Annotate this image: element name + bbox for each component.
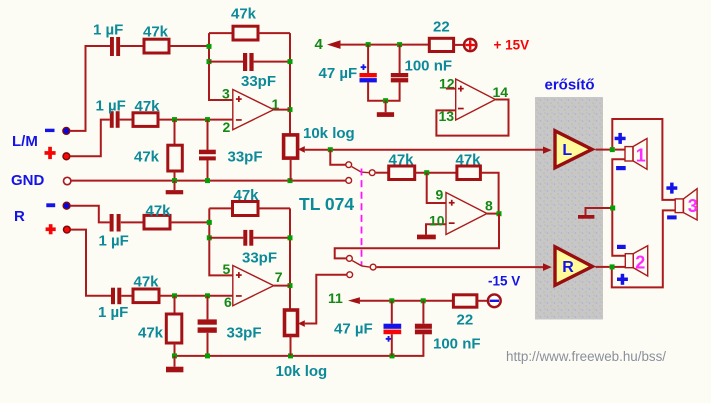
wire pin12 stub (446, 88, 456, 90)
svg-text:14: 14 (493, 84, 509, 100)
wire R fb resistor row left (209, 207, 232, 209)
svg-text:10k log: 10k log (276, 363, 328, 380)
resistor 47k (L shunt vertical) (168, 145, 183, 171)
wire amplifier L output (596, 149, 611, 151)
svg-text:33pF: 33pF (241, 73, 276, 90)
GND terminal (63, 177, 70, 184)
svg-text:1 µF: 1 µF (93, 22, 123, 39)
switch SW1a lever (352, 167, 369, 173)
wire L minus to top row (70, 46, 110, 131)
wire feedback to output vertical (480, 173, 498, 214)
wire 47k shunt bottom lead (174, 171, 176, 181)
arrow to pin 11 (348, 297, 360, 304)
node junction rail 100nF bottom (421, 298, 426, 303)
resistor 22 (-15V) (453, 295, 477, 307)
label -15 V (488, 274, 520, 289)
svg-text:47k: 47k (389, 152, 415, 169)
potentiometer R wiper arrow (298, 320, 305, 327)
label 33pF (242, 250, 277, 267)
speaker 3 plus mark (666, 183, 677, 194)
label 47k (456, 152, 482, 169)
label 100 nF (405, 58, 453, 75)
svg-text:22: 22 (433, 19, 450, 36)
wire resistor to -15V source (477, 300, 488, 302)
pin label 12 (439, 76, 455, 92)
wire 100nF bottom top lead (422, 301, 424, 324)
op-amp U1b minus mark (236, 295, 242, 297)
amplifier block gray box (535, 97, 603, 320)
wire resistor to node (169, 45, 209, 47)
R minus terminal (63, 202, 70, 209)
svg-text:10: 10 (429, 213, 445, 229)
wire loop R output to speaker 3 minus (612, 210, 675, 287)
capacitor 100nF (top) (391, 73, 408, 82)
label 47uF (334, 320, 373, 337)
svg-text:10k log: 10k log (303, 125, 355, 142)
label 1uF (99, 232, 129, 249)
pin label 7 (275, 269, 283, 285)
wire pot L bottom to GND row (290, 158, 292, 181)
label 1uF (98, 304, 128, 321)
svg-text:22: 22 (457, 312, 474, 329)
wire 47uF bottom lead (368, 82, 386, 100)
label 47k (389, 152, 415, 169)
node junction bottom row 33pF (205, 353, 210, 358)
svg-text:8: 8 (485, 198, 493, 214)
svg-text:L/M: L/M (12, 133, 38, 150)
svg-text:47k: 47k (134, 274, 160, 291)
wire +15V rail (339, 44, 429, 46)
wire op-amp U1c output (487, 213, 499, 215)
label 1uF (93, 22, 123, 39)
wire bottom ground row (175, 334, 424, 356)
node junction GND at 33pF (205, 178, 210, 183)
amplifier L input arrow (543, 147, 552, 154)
wire to speaker 2 plus (615, 266, 626, 268)
svg-text:11: 11 (328, 290, 343, 306)
wire switch pole to 47k (376, 172, 389, 174)
svg-text:4: 4 (315, 36, 324, 53)
node junction speaker return (610, 206, 615, 211)
wire 33pF shunt leads (207, 296, 209, 356)
wire op-amp output (274, 109, 290, 111)
wire U1d follower feedback loop (436, 100, 508, 136)
L/M minus mark (45, 129, 55, 132)
wire 47k shunt top lead (174, 120, 176, 146)
wire cap to resistor (121, 295, 133, 297)
capacitor 33pF (L feedback) (243, 53, 254, 71)
switch SW1b throw contact (pot R) (347, 272, 353, 278)
arrow to pin 4 (327, 40, 341, 49)
op-amp U1a triangle (233, 90, 274, 130)
wire U1c output route to switch SW1b (335, 214, 499, 259)
pin label 2 (223, 119, 231, 135)
node junction bottom row 47uF (390, 353, 395, 358)
wire op-amp U1b output (274, 285, 290, 287)
label 33pF (241, 73, 276, 90)
ground (top PSU) (377, 101, 394, 117)
label 22 (457, 312, 474, 329)
wire R fb cap row left (209, 237, 243, 239)
op-amp U1c plus mark (449, 200, 455, 206)
svg-text:47k: 47k (135, 98, 161, 115)
label 33pF (227, 325, 262, 342)
label 10k log (303, 125, 355, 142)
svg-text:47k: 47k (143, 24, 169, 41)
wire R fb node vertical to pin5 (209, 208, 233, 275)
ground (speaker return) (578, 215, 594, 219)
svg-text:6: 6 (224, 294, 232, 310)
svg-text:3: 3 (222, 85, 230, 101)
wire to ground mid (586, 208, 611, 215)
L/M plus terminal (63, 153, 70, 160)
svg-text:http://www.freeweb.hu/bss/: http://www.freeweb.hu/bss/ (506, 349, 666, 364)
resistor 47k (R shunt vertical) (166, 314, 182, 343)
label TL 074 (299, 194, 354, 214)
speaker 2 minus mark (617, 245, 626, 249)
R plus mark (46, 224, 56, 234)
wire pot R bottom to ground row (290, 336, 292, 356)
label 47k (146, 202, 172, 219)
resistor 47k (R feedback) (233, 202, 259, 216)
resistor 47k (R first input) (144, 215, 170, 229)
wire GND row (71, 180, 346, 182)
svg-text:47 µF: 47 µF (319, 65, 358, 82)
op-amp U1c triangle (446, 193, 487, 235)
node junction GND at 47k (172, 178, 177, 183)
node junction sum node (424, 170, 429, 175)
capacitor 1uF (L top) (110, 37, 120, 56)
wire pin6 row to op-amp (159, 295, 233, 297)
node junction rail 47uF bottom (389, 298, 394, 303)
svg-text:1 µF: 1 µF (99, 232, 129, 249)
pin label 8 (485, 198, 493, 214)
op-amp U1d triangle (456, 79, 496, 120)
op-amp U1d plus mark (458, 86, 464, 92)
node junction GND at pot L (288, 178, 293, 183)
pin label 14 (493, 84, 509, 100)
resistor 47k (L top input) (144, 39, 169, 53)
capacitor 1uF (R second) (111, 288, 121, 305)
label 47k (234, 187, 260, 204)
wire L plus to pin2 row (70, 120, 110, 157)
svg-text:100 nF: 100 nF (433, 336, 481, 353)
R plus terminal (64, 226, 71, 233)
switch SW1a pole contact (369, 170, 375, 176)
speaker 1 (625, 139, 647, 170)
op-amp U1a minus mark (236, 119, 242, 121)
resistor 47k (sum feedback) (457, 166, 481, 180)
op-amp U1b triangle (233, 266, 274, 306)
label 47k (143, 24, 169, 41)
node junction fb node 33pF row (207, 59, 212, 64)
wire resistor to +15V source (454, 44, 464, 46)
svg-text:TL 074: TL 074 (299, 194, 354, 214)
speaker 1 plus mark (615, 133, 626, 144)
svg-text:100 nF: 100 nF (405, 58, 453, 75)
pin label 4 (315, 36, 324, 53)
wire wiper branch down to switch (330, 150, 346, 165)
node junction rail 100nF (397, 42, 402, 47)
label 47k (134, 149, 160, 166)
wire fb resistor row right (258, 32, 290, 34)
wire output vertical x290 (289, 33, 291, 135)
node junction L output (610, 147, 615, 152)
pin label 11 (328, 290, 343, 306)
switch SW1a throw contact (signal) (346, 162, 352, 168)
capacitor 47uF electrolytic (bottom) (384, 324, 402, 342)
svg-text:47k: 47k (456, 152, 482, 169)
capacitor 33pF (R shunt vertical) (198, 319, 217, 332)
ground (L input stage) (166, 181, 184, 195)
wire 100nF bottom lead (386, 82, 400, 100)
wire pot L wiper to amplifier L (305, 149, 544, 151)
speaker 2 (625, 246, 647, 276)
svg-text:47k: 47k (146, 202, 172, 219)
node junction R row at 47k shunt (172, 293, 177, 298)
svg-text:33pF: 33pF (242, 250, 277, 267)
wire fb cap row right (254, 61, 290, 63)
label 47uF (319, 65, 358, 82)
wire fb cap row left (209, 61, 243, 63)
potentiometer L wiper arrow (298, 146, 305, 153)
resistor 47k (sum input 1) (389, 166, 415, 180)
label GND (11, 172, 45, 189)
wire 33pF shunt leads (207, 120, 209, 181)
svg-text:1 µF: 1 µF (98, 304, 128, 321)
capacitor 1uF (L second) (110, 111, 120, 128)
wire R fb resistor row right (258, 207, 290, 209)
switch SW1a throw contact (ground) (346, 178, 352, 184)
op-amp U1c minus mark (449, 222, 455, 224)
wire 47uF bottom bottom lead (391, 334, 393, 356)
svg-text:47k: 47k (138, 325, 164, 342)
potentiometer 10k log (L) body (284, 135, 298, 158)
L/M minus terminal (63, 127, 70, 134)
node junction bottom row pot R (288, 353, 293, 358)
node junction R fb node input row (207, 220, 212, 225)
svg-text:5: 5 (223, 261, 231, 277)
wire cap to resistor (120, 45, 144, 47)
label L/M (12, 133, 38, 150)
svg-text:R: R (14, 208, 25, 225)
svg-text:1: 1 (636, 146, 646, 166)
svg-text:erősítő: erősítő (545, 77, 595, 94)
svg-text:33pF: 33pF (227, 325, 262, 342)
capacitor 100nF (bottom) (415, 324, 432, 335)
wire R output vertical x290 (289, 208, 291, 310)
amplifier R triangle (555, 247, 592, 285)
op-amp U1b plus mark (236, 272, 242, 278)
wire feedback node vertical to pin3 (209, 33, 233, 100)
-15V source circle (488, 294, 501, 307)
svg-text:33pF: 33pF (228, 149, 263, 166)
wire R fb cap row right (253, 237, 290, 239)
label +15V (494, 38, 530, 53)
op-amp U1d minus mark (458, 108, 464, 110)
ganged switch link dashed line (361, 169, 363, 267)
label 10k log (276, 363, 328, 380)
svg-text:3: 3 (688, 196, 698, 216)
switch SW1b pole contact (370, 264, 376, 270)
label 100 nF (433, 336, 481, 353)
speaker 2 plus mark (617, 274, 628, 285)
wire speaker 1 minus chain (612, 159, 625, 255)
svg-text:9: 9 (436, 187, 444, 203)
label 33pF (228, 149, 263, 166)
potentiometer 10k log (R) body (285, 310, 298, 336)
node junction R row at 33pF shunt (205, 293, 210, 298)
pin label 1 (272, 96, 280, 112)
label 1uF (96, 98, 126, 115)
wire pin2 row to op-amp (158, 119, 233, 121)
svg-text:-15 V: -15 V (488, 274, 520, 289)
svg-text:R: R (562, 259, 574, 276)
wire pin10 to ground (426, 224, 446, 234)
node junction R x290 output (288, 283, 293, 288)
speaker 1 minus mark (616, 166, 626, 170)
svg-text:47k: 47k (134, 149, 160, 166)
node junction x290 output (288, 107, 293, 112)
resistor 22 (+15V) (429, 38, 453, 51)
wire resistor to fb node (170, 221, 209, 223)
wire cap to resistor (120, 119, 133, 121)
pin label 9 (436, 187, 444, 203)
node junction R fb node 33pF row (207, 235, 212, 240)
pin label 6 (224, 294, 232, 310)
node junction fb node input row (207, 44, 212, 49)
wire 100nF top lead (399, 45, 401, 73)
label R (14, 208, 25, 225)
node junction R output (610, 264, 615, 269)
wire 47uF bottom top lead (391, 301, 393, 324)
wire cap to resistor (121, 221, 144, 223)
ground (pin 10) (417, 235, 436, 240)
svg-text:7: 7 (275, 269, 283, 285)
node junction bottom row 47k (172, 353, 177, 358)
wire loop L output to speaker 3 plus (612, 119, 675, 200)
svg-text:+ 15V: + 15V (494, 38, 530, 53)
svg-text:2: 2 (635, 253, 645, 273)
wire -15V rail (359, 300, 454, 302)
wire sum node to pin9 (427, 173, 446, 203)
svg-text:1 µF: 1 µF (96, 98, 126, 115)
wire to speaker 1 plus (615, 149, 625, 151)
resistor 47k (R second input) (133, 289, 159, 303)
pin label 5 (223, 261, 231, 277)
pin label 13 (439, 108, 455, 124)
wire fb resistor row left (209, 32, 233, 34)
svg-text:GND: GND (11, 172, 45, 189)
wire switch SW1b pole to amplifier R (377, 266, 544, 268)
label 22 (433, 19, 450, 36)
svg-text:2: 2 (223, 119, 231, 135)
svg-text:47 µF: 47 µF (334, 320, 373, 337)
capacitor 47uF electrolytic (top) (360, 64, 377, 82)
svg-text:47k: 47k (231, 6, 257, 23)
URL watermark (506, 349, 666, 364)
label 47k (134, 274, 160, 291)
node junction wiper branch (328, 147, 333, 152)
node junction L row2 at 33pF shunt (205, 117, 210, 122)
svg-text:L: L (562, 142, 572, 159)
L/M plus mark (45, 147, 56, 159)
wire pot R wiper to switch SW1b (305, 275, 347, 324)
speaker 3 (675, 189, 698, 220)
wire 47k shunt top lead (174, 296, 176, 314)
wire 47uF top lead (367, 45, 369, 73)
wire R minus to input row (70, 206, 110, 223)
speaker 3 minus mark (667, 215, 677, 219)
resistor 47k (L feedback) (233, 26, 258, 40)
amplifier R input arrow (543, 263, 552, 271)
node junction x290 33pF row (288, 59, 293, 64)
label erosito (545, 77, 595, 94)
capacitor 33pF (R feedback) (243, 230, 253, 246)
R minus mark (46, 203, 55, 207)
node junction L row2 at 47k shunt (172, 117, 177, 122)
switch SW1b lever (352, 261, 369, 268)
svg-text:47k: 47k (234, 187, 260, 204)
wire 47k shunt bottom lead (174, 343, 176, 356)
label 47k (135, 98, 161, 115)
resistor 47k (L second input) (133, 113, 158, 127)
node junction U1c output (497, 211, 502, 216)
switch SW1b throw contact (sum signal) (347, 256, 353, 262)
node junction decoupling ground (383, 98, 388, 103)
node junction rail 47uF (366, 42, 371, 47)
label 47k (138, 325, 164, 342)
pin label 10 (429, 213, 445, 229)
wire R plus to pin6 row (70, 230, 111, 296)
capacitor 33pF (L shunt vertical) (199, 150, 216, 161)
capacitor 1uF (R first) (110, 214, 121, 232)
op-amp U1a plus mark (236, 96, 242, 102)
label 47k (231, 6, 257, 23)
amplifier L triangle (555, 131, 592, 168)
ground (R input stage) (166, 356, 183, 372)
node junction R x290 33pF row (288, 235, 293, 240)
+15V source circle (464, 39, 476, 51)
pin label 3 (222, 85, 230, 101)
wire amplifier R output (596, 266, 610, 268)
wire between 47k resistors (415, 172, 457, 174)
